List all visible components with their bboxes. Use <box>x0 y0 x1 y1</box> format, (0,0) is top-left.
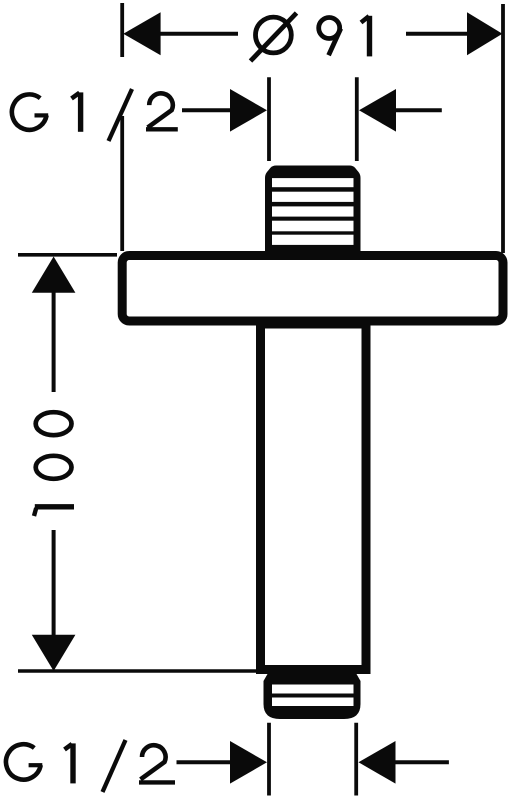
100 dimension arrow up <box>32 257 76 293</box>
100 dimension arrow down <box>32 635 76 671</box>
bottom extension line right <box>354 723 358 796</box>
main vertical pipe <box>261 324 367 670</box>
text O 91 : digit 1 <box>361 16 370 57</box>
top right arrow shaft <box>395 108 442 112</box>
bottom right arrow shaft <box>395 760 449 764</box>
top label G 1/2 : digit 1 <box>72 92 81 131</box>
text 100 rotated: digit 1 <box>34 507 74 516</box>
extension line right of top thread <box>355 77 359 161</box>
100 dimension line lower segment <box>52 530 56 637</box>
bottom connector white stripes <box>272 685 354 707</box>
bottom label G 1/2 : slash <box>103 740 126 792</box>
100 dimension line upper segment <box>52 291 56 392</box>
bottom label G 1/2 : digit 2 <box>139 745 175 782</box>
100 dimension: bottom extension line <box>18 669 256 673</box>
text 100 rotated: second 0 <box>36 412 72 435</box>
top right arrowhead pointing left <box>359 89 396 132</box>
extension line left of top thread <box>267 77 271 161</box>
bottom threaded connector <box>264 674 361 719</box>
flange (ceiling plate) <box>122 256 503 322</box>
bottom label G 1/2 : digit 1 <box>65 743 74 783</box>
top label arrow shaft <box>182 108 231 112</box>
text 100 rotated: first 0 <box>36 456 72 479</box>
top label G 1/2 : digit 2 <box>146 93 178 129</box>
arrow left of O91 <box>123 12 160 55</box>
top thread white stripes <box>272 178 354 245</box>
bottom extension line left <box>267 723 271 796</box>
extension line right of diameter dimension <box>501 4 505 253</box>
top label G 1/2 : letter G <box>12 94 48 129</box>
top threaded pipe body (black, rounded top) <box>265 166 361 254</box>
arrow right of O91 <box>467 12 502 55</box>
bottom label G 1/2 : letter G <box>6 744 42 779</box>
bottom label arrowhead pointing right <box>230 741 267 784</box>
top label arrowhead pointing right <box>230 89 267 132</box>
100 dimension: top extension line <box>18 253 117 257</box>
text O 91 : digit 9 <box>319 18 341 56</box>
dimension line O91 left segment <box>158 32 238 36</box>
bottom label arrow shaft <box>177 760 231 764</box>
text O 91 : diameter symbol <box>251 13 297 61</box>
top label G 1/2 : slash <box>109 89 133 141</box>
bottom right arrowhead pointing left <box>359 741 396 784</box>
extension line left of diameter dimension <box>120 3 124 251</box>
dimension line O91 right segment <box>406 32 472 36</box>
